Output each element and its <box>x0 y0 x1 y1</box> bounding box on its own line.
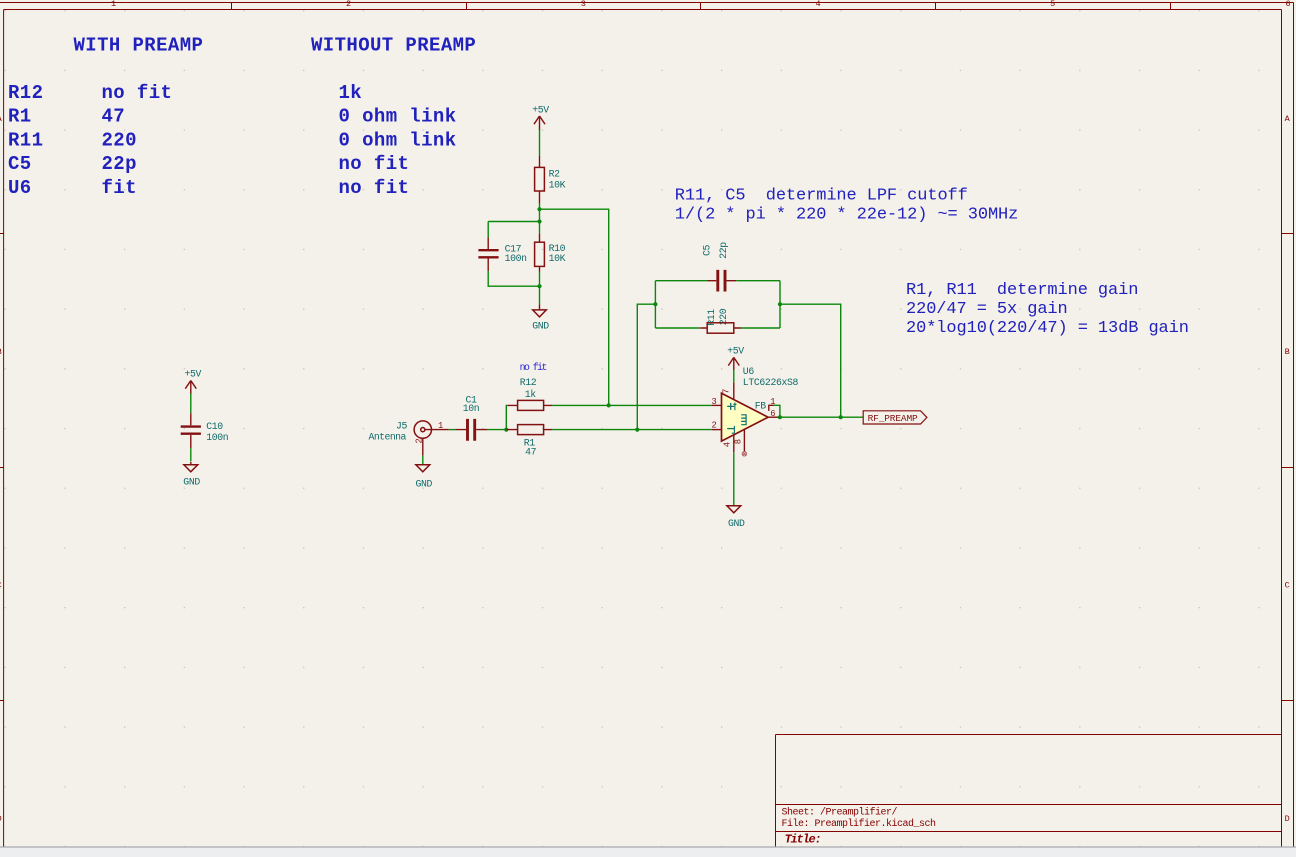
svg-text:5: 5 <box>1050 0 1055 9</box>
wire feedback to output column <box>780 304 841 417</box>
op-amp - input mark <box>727 428 734 430</box>
op-amp pin 1 FB <box>769 405 774 411</box>
svg-text:no fit: no fit <box>339 177 410 199</box>
svg-text:B: B <box>0 347 2 357</box>
resistor R12 (no fit) <box>508 362 552 411</box>
feedback right vertical wire <box>779 281 781 328</box>
svg-text:GND: GND <box>183 477 200 488</box>
wire R1 to op-amp pin 2 <box>552 429 712 431</box>
svg-text:4: 4 <box>815 0 820 9</box>
svg-text:+5V: +5V <box>532 105 549 116</box>
op-amp pin 6 output <box>768 416 780 418</box>
svg-text:+5V: +5V <box>727 346 744 357</box>
wire R12 to op-amp pin 3 <box>552 404 712 406</box>
svg-text:R1: R1 <box>8 106 32 128</box>
svg-text:U6: U6 <box>743 366 755 377</box>
junction feedback column on pin2 wire <box>635 428 639 432</box>
junction feedback left <box>653 302 657 306</box>
svg-text:4: 4 <box>723 442 733 447</box>
op-amp V+ pin name mark <box>733 403 736 411</box>
op-amp SHDN pin name mark <box>741 414 746 425</box>
svg-text:10K: 10K <box>549 253 566 264</box>
svg-text:3: 3 <box>712 397 717 407</box>
connector J5 Antenna (BNC) <box>369 421 449 456</box>
svg-text:8: 8 <box>734 439 744 444</box>
svg-text:no fit: no fit <box>339 153 410 175</box>
svg-text:R11: R11 <box>8 129 43 151</box>
wire pin 4 to GND <box>733 452 735 505</box>
junction at R2 bottom <box>537 207 541 211</box>
svg-text:C5: C5 <box>8 153 32 175</box>
svg-text:+5V: +5V <box>185 369 202 380</box>
svg-text:7: 7 <box>722 389 732 394</box>
svg-text:1/(2 * pi * 220 * 22e-12) ~= 3: 1/(2 * pi * 220 * 22e-12) ~= 30MHz <box>675 206 1018 225</box>
op-amp V- pin name mark <box>732 426 735 433</box>
svg-text:C: C <box>1285 581 1290 591</box>
svg-text:R12: R12 <box>520 377 537 388</box>
frame column numbers <box>111 0 1291 9</box>
wire R11 right <box>741 327 780 329</box>
wire J5 pin2 to GND <box>422 456 424 465</box>
ground symbol (below op-amp) <box>727 506 745 529</box>
wire C10 to GND <box>190 448 192 461</box>
wire to C5 left <box>655 280 707 282</box>
svg-text:fit: fit <box>102 177 137 199</box>
frame top ticks <box>232 3 1171 10</box>
capacitor C17 <box>478 238 527 272</box>
svg-text:220/47 = 5x gain: 220/47 = 5x gain <box>906 300 1068 319</box>
ground symbol (below R10) <box>532 304 549 331</box>
junction feedback right <box>778 302 782 306</box>
svg-text:220: 220 <box>102 129 137 151</box>
svg-text:no fit: no fit <box>102 82 173 104</box>
svg-text:100n: 100n <box>206 432 229 443</box>
svg-text:LTC6226xS8: LTC6226xS8 <box>743 377 799 388</box>
resistor R11 <box>700 308 741 333</box>
wire to C17 top <box>488 222 539 238</box>
svg-text:R2: R2 <box>549 169 561 180</box>
op-amp pin 4 <box>733 435 735 453</box>
wire to R11 left <box>655 327 700 329</box>
op-amp pin 3 <box>712 404 722 406</box>
svg-text:GND: GND <box>532 320 549 331</box>
wire J5 to C1 <box>449 429 455 431</box>
wire C17 bottom <box>488 271 539 286</box>
svg-text:6: 6 <box>770 409 775 419</box>
svg-text:GND: GND <box>728 518 745 529</box>
svg-text:WITH PREAMP: WITH PREAMP <box>74 34 204 56</box>
svg-text:R12: R12 <box>8 82 43 104</box>
ground symbol (below J5) <box>416 465 433 490</box>
junction at pin 6 <box>778 415 782 419</box>
svg-text:Title:: Title: <box>785 833 821 847</box>
op-amp + input mark <box>727 403 734 410</box>
wire FB pin to output <box>774 405 780 417</box>
svg-text:1: 1 <box>111 0 116 9</box>
capacitor C1 <box>455 394 488 440</box>
wire input node up to R12 <box>506 405 508 429</box>
resistor R10 <box>535 234 566 272</box>
svg-text:1k: 1k <box>339 82 363 104</box>
wire R10 to GND <box>539 272 541 305</box>
wire output to label <box>780 416 863 418</box>
resistor R2 <box>535 156 566 204</box>
wire divider node to pin 3 column <box>540 209 609 405</box>
svg-text:22p: 22p <box>718 242 729 259</box>
wire +5V to op-amp pin 7 <box>733 370 735 383</box>
junction output column <box>839 415 843 419</box>
junction C17 top tap <box>537 219 541 223</box>
svg-text:D: D <box>1285 814 1290 824</box>
svg-text:C5: C5 <box>702 245 713 257</box>
feedback left vertical wire <box>654 281 656 328</box>
junction pin3 column <box>607 403 611 407</box>
svg-text:22p: 22p <box>102 153 137 175</box>
op-amp pin 8 <box>743 429 745 452</box>
wire C1 to input node <box>488 429 507 431</box>
svg-text:J5: J5 <box>396 421 408 432</box>
op-amp U6 LTC6226xS8 <box>712 366 799 456</box>
junction input node <box>504 428 508 432</box>
svg-text:3: 3 <box>581 0 586 9</box>
junction R10 bottom <box>537 284 541 288</box>
frame side ticks <box>0 234 1294 701</box>
svg-text:20*log10(220/47) = 13dB gain: 20*log10(220/47) = 13dB gain <box>906 319 1189 338</box>
svg-text:FB: FB <box>755 401 767 412</box>
svg-text:2: 2 <box>414 439 424 444</box>
svg-text:A: A <box>1285 114 1291 124</box>
svg-text:Antenna: Antenna <box>369 432 407 443</box>
svg-text:10n: 10n <box>463 403 480 414</box>
power symbol +5V (top, above R2) <box>532 105 549 131</box>
svg-text:File: Preamplifier.kicad_sch: File: Preamplifier.kicad_sch <box>782 818 937 830</box>
pin 8 unconnected marker <box>742 452 746 456</box>
svg-text:D: D <box>0 814 2 824</box>
svg-text:U6: U6 <box>8 177 32 199</box>
wire R2 to R10 <box>539 204 541 234</box>
svg-text:B: B <box>1285 347 1290 357</box>
resistor R1 <box>506 425 552 458</box>
svg-text:R11, C5 determine LPF cutoff: R11, C5 determine LPF cutoff <box>675 187 968 206</box>
svg-text:0 ohm link: 0 ohm link <box>339 129 457 151</box>
svg-text:C: C <box>0 581 2 591</box>
svg-text:2: 2 <box>712 421 717 431</box>
op-amp pin 7 <box>733 383 735 400</box>
global label RF_PREAMP <box>863 411 927 424</box>
wire +5V to R2 <box>539 130 541 156</box>
svg-text:Sheet: /Preamplifier/: Sheet: /Preamplifier/ <box>782 807 898 819</box>
power symbol +5V (above op-amp) <box>727 346 744 371</box>
svg-text:10K: 10K <box>549 179 566 190</box>
svg-text:no fit: no fit <box>520 362 547 373</box>
svg-text:C10: C10 <box>206 421 223 432</box>
wire C5 right <box>736 280 780 282</box>
svg-text:0 ohm link: 0 ohm link <box>339 106 457 128</box>
svg-text:47: 47 <box>102 106 126 128</box>
wire +5V to C10 <box>190 394 192 414</box>
wire pin2 node up to feedback network <box>637 304 655 429</box>
svg-text:RF_PREAMP: RF_PREAMP <box>868 413 918 424</box>
svg-text:GND: GND <box>416 479 433 490</box>
op-amp pin 2 <box>712 429 722 431</box>
power symbol +5V (left, above C10) <box>185 369 202 395</box>
svg-text:100n: 100n <box>505 253 528 264</box>
svg-text:WITHOUT PREAMP: WITHOUT PREAMP <box>311 34 476 56</box>
svg-text:R1, R11 determine gain: R1, R11 determine gain <box>906 281 1138 300</box>
svg-text:6: 6 <box>1285 0 1290 9</box>
ground symbol (below C10) <box>183 462 200 488</box>
svg-text:1k: 1k <box>525 389 537 400</box>
window bottom strip <box>0 848 1296 857</box>
svg-text:1: 1 <box>438 421 443 431</box>
capacitor C5 <box>702 242 737 292</box>
svg-text:2: 2 <box>346 0 351 9</box>
title block <box>776 735 1282 848</box>
capacitor C10 <box>181 413 229 448</box>
svg-text:47: 47 <box>525 447 537 458</box>
